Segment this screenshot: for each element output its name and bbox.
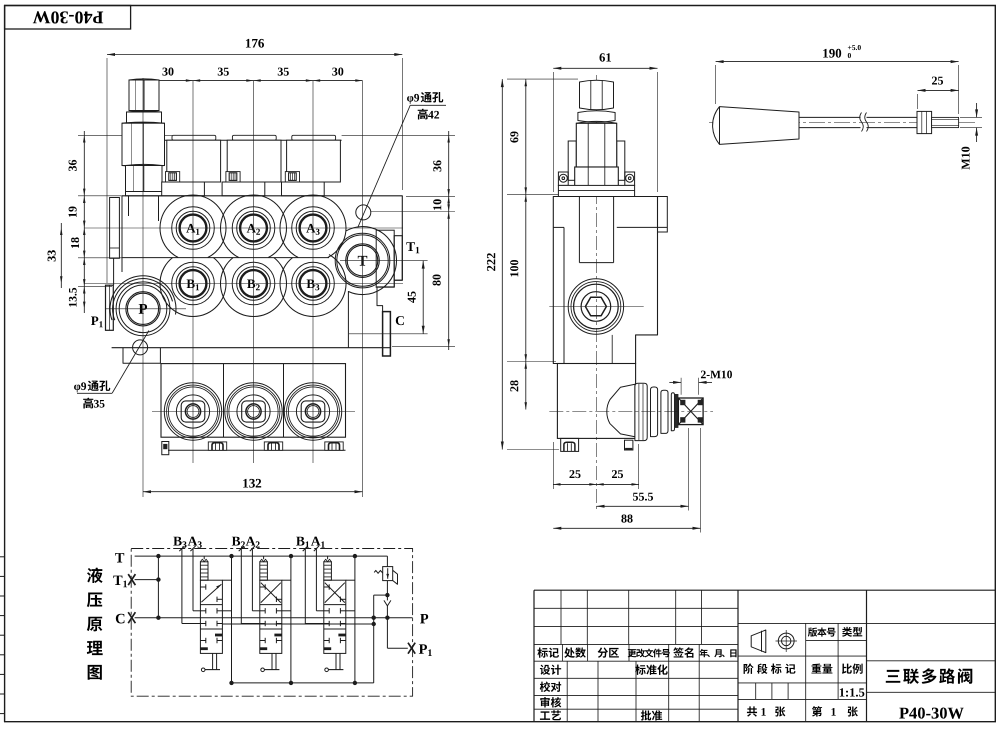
lower block section divider 1 — [223, 364, 225, 438]
foot bolt — [264, 442, 282, 450]
dimension 132 — [143, 491, 363, 493]
label P schematic — [420, 614, 428, 623]
cap bolt detail — [285, 172, 299, 182]
wire tank riser — [231, 556, 233, 683]
side hex body — [576, 123, 616, 167]
dimension M10 — [960, 116, 982, 118]
wire carryover line — [222, 623, 373, 625]
mounting hole phi9 top — [356, 205, 371, 220]
drawing frame border — [4, 5, 996, 7]
port T1 boss — [376, 230, 394, 287]
cap bolt detail — [226, 172, 240, 182]
spool cap assembly — [172, 135, 216, 140]
relief valve hex stack — [129, 80, 159, 111]
centerline bottom plugs row — [152, 411, 355, 413]
dimension 176 extension lines — [106, 58, 108, 283]
handle rod — [799, 116, 861, 118]
wire A feed — [192, 549, 194, 611]
front view centerline spool 3 — [312, 81, 314, 463]
valve body top edge — [122, 195, 403, 197]
plug X at T1 — [128, 574, 135, 585]
port A1 — [172, 207, 215, 250]
dimension 190 extension lines — [715, 65, 717, 104]
dimension 25-25 extension lines — [552, 442, 554, 489]
joystick bellows ridges — [635, 383, 647, 440]
wire A feed — [315, 549, 317, 611]
dimension 55.5 extension line — [688, 428, 690, 511]
wire B feed — [181, 549, 183, 624]
dimension 222 line — [501, 79, 503, 449]
dimension 55.5 — [597, 505, 689, 507]
dimension 61 — [553, 67, 657, 69]
labels B2 A2 — [232, 537, 240, 546]
side dim extension lines — [507, 78, 578, 80]
handle threaded end M10 — [932, 117, 959, 127]
dimension 80 — [433, 274, 441, 285]
wire C-P rail — [135, 617, 413, 619]
boss arc around P outer — [110, 276, 176, 320]
bottom plug assembly — [164, 383, 221, 440]
side hex socket — [585, 297, 606, 315]
header row texts — [537, 647, 547, 657]
dimension 33 line — [60, 223, 62, 288]
front view centerline spool 1 — [192, 81, 194, 463]
stage mark label — [744, 663, 754, 673]
left table columns header row — [561, 644, 563, 661]
foot bolt — [208, 442, 226, 450]
centerline P port — [106, 308, 186, 310]
dimension 19 — [69, 206, 77, 217]
version type headers — [808, 627, 817, 636]
side spool bore — [578, 197, 580, 263]
projection symbol trapezoid — [751, 630, 766, 653]
wire T rail — [135, 555, 388, 557]
label T schematic — [115, 553, 124, 562]
side left notch — [553, 226, 564, 228]
wire T1 to C vertical — [157, 556, 159, 618]
port A2 — [232, 207, 275, 250]
horizontal body line under caps — [160, 139, 342, 141]
label P1 schematic — [419, 644, 427, 653]
mounting hole phi9 bottom — [133, 340, 148, 355]
cap base block — [282, 182, 325, 196]
dimension 25-25 — [553, 483, 638, 485]
relief valve bore lines in body — [128, 196, 130, 216]
schematic title ye-ya-yuan-li-tu — [87, 567, 103, 583]
port B1 — [172, 262, 215, 305]
front view centerline T column — [362, 81, 364, 497]
side circle centerline — [549, 306, 643, 308]
sheet count — [747, 706, 757, 716]
left table row lines — [534, 607, 738, 609]
centerline T port — [340, 260, 428, 262]
left table columns lower rows — [566, 661, 568, 722]
dimension 36 left — [69, 160, 77, 171]
note phi9 through-hole height 35 — [74, 385, 80, 393]
scale value — [840, 688, 845, 696]
side bracket plates — [568, 141, 576, 180]
weight scale labels — [811, 664, 821, 674]
lower valve block — [161, 364, 346, 438]
port A3 — [292, 207, 335, 250]
body right lower profile steps — [377, 280, 402, 311]
boss circle arc around B port — [221, 258, 287, 317]
handle grip — [713, 107, 799, 145]
boss circle arc around A port — [160, 195, 226, 257]
relief valve spring — [374, 570, 382, 573]
dimension 176 — [107, 54, 402, 56]
cap bolt detail — [166, 172, 180, 182]
lower block section divider 2 — [283, 364, 285, 438]
side step near C — [611, 335, 613, 364]
side view body outline — [553, 197, 657, 364]
boss circle arc around B port — [160, 258, 226, 317]
node dots — [156, 554, 160, 558]
cap base block — [162, 182, 205, 196]
foot line under lower block — [168, 449, 346, 451]
drawing title san-lian-duo-lu-fa — [886, 670, 901, 683]
dimension row 30-35-35-30 — [143, 80, 363, 82]
spool cap assembly — [292, 135, 336, 140]
directional valve section at x=334.8 — [324, 562, 332, 580]
wire B feed — [240, 549, 242, 624]
note phi9 through-hole height 42 — [407, 96, 413, 104]
side lower block — [557, 364, 635, 439]
left dimension chain extension lines — [78, 134, 172, 136]
side view dimension 61 extension lines — [552, 72, 554, 192]
foot bolt — [325, 442, 343, 450]
left table columns top rows — [560, 590, 562, 644]
wire B feed — [304, 549, 306, 624]
side flange plates — [558, 185, 634, 196]
centerline B-port row — [84, 283, 403, 285]
wire bottom tank rail — [232, 682, 374, 684]
dimension 88 extension line — [700, 428, 702, 533]
wire P1 branch — [386, 618, 388, 649]
relief valve symbol — [386, 556, 388, 567]
handle nut — [917, 111, 932, 133]
port T1 cover plate — [394, 236, 402, 281]
body left edge — [121, 196, 123, 272]
dimension 18 — [71, 237, 79, 248]
middle section lines — [738, 622, 995, 624]
dimension chain 69-100-28 line — [525, 79, 527, 409]
port tick marks — [239, 546, 244, 551]
body left upper tab — [110, 198, 120, 259]
side line right mid — [617, 226, 668, 228]
right title area lines — [867, 660, 996, 662]
wire tank riser — [290, 556, 292, 683]
dimension 10 — [433, 199, 441, 210]
label P1 front view — [91, 317, 98, 325]
body parting line — [122, 257, 329, 259]
directional valve section at x=270.8 — [260, 562, 268, 580]
boss circle arc around B port — [280, 255, 346, 317]
check arrow — [384, 600, 391, 606]
side left foot bolt — [561, 438, 579, 451]
joystick collar — [675, 394, 679, 428]
side wings with bolt holes — [558, 172, 568, 185]
front view centerline spool 2 — [253, 81, 255, 463]
dimension 25 handle — [918, 89, 959, 91]
side hex nut small — [578, 111, 615, 123]
leader line phi9 bottom — [112, 331, 149, 394]
port tick marks — [303, 546, 308, 551]
wire tank riser — [354, 556, 356, 683]
left mounting tab — [162, 442, 169, 455]
sheet label box P40-30W (rotated) — [5, 6, 131, 30]
bottom plug assembly — [225, 383, 282, 440]
plug X at C — [128, 612, 135, 623]
label T1 schematic — [113, 576, 122, 585]
left dimension chain line — [83, 131, 85, 313]
parts-list row ticks at left margin — [0, 556, 5, 558]
front view centerline P spool — [142, 78, 144, 497]
spool cap assembly — [232, 135, 276, 140]
wire A feed — [251, 549, 253, 611]
schematic boundary dash-dot box — [131, 549, 412, 697]
right dimension chain extension lines — [342, 134, 455, 136]
wire relief to P rail — [386, 581, 388, 618]
dimension 88 — [553, 527, 700, 529]
wire riser to relief — [373, 595, 375, 683]
P boss lower step — [123, 348, 160, 364]
directional valve section at x=211.4 — [200, 562, 208, 580]
boss circle arc around A port — [221, 195, 287, 257]
body right edge — [401, 196, 403, 280]
port tick marks — [179, 546, 184, 551]
label C schematic — [116, 614, 125, 624]
centerline A-port row — [84, 227, 403, 229]
body inner vertical right of B3 — [347, 291, 349, 348]
title block top edge — [534, 589, 995, 591]
dimension 45 line — [422, 261, 424, 334]
labels B3 A3 — [173, 537, 181, 546]
side hex adjuster top — [580, 80, 614, 110]
right dimension chain line — [448, 131, 450, 350]
side view spool centerline — [596, 75, 598, 510]
side circle boss — [568, 279, 623, 334]
plug X at P1 — [408, 643, 415, 654]
side right foot — [625, 440, 633, 450]
title block outer verticals — [533, 590, 535, 722]
label C front view — [396, 316, 404, 325]
wire T1 stub — [135, 579, 159, 581]
joystick bellows dome — [607, 384, 635, 437]
joystick centerline — [549, 411, 713, 413]
boss arc around P inner — [113, 279, 173, 321]
port P1 boss — [106, 285, 114, 330]
dimension 190 +5.0/0 — [716, 61, 959, 63]
projection symbol circle — [778, 633, 794, 649]
side hex big nut — [575, 167, 619, 188]
boss arc around T — [346, 227, 397, 295]
port B2 — [232, 262, 275, 305]
designer rows texts — [540, 665, 550, 675]
dimension 13.5 — [69, 288, 77, 307]
leader line phi9 top — [358, 105, 411, 227]
port T — [335, 233, 390, 288]
label T1 front view — [406, 242, 415, 251]
dimension 36 right — [433, 160, 441, 171]
boss circle arc around A port — [280, 195, 346, 257]
drawing number P40-30W — [899, 708, 908, 719]
port B3 — [292, 262, 335, 305]
port C boss plate — [383, 312, 391, 356]
side right tab — [658, 197, 668, 233]
bottom plug assembly — [284, 383, 341, 440]
dimension 25 extension line — [917, 94, 919, 109]
stage mark small cells — [755, 683, 757, 700]
cap base block — [222, 182, 265, 196]
labels B1 A1 — [296, 537, 304, 546]
dimension 2-M10 — [680, 378, 682, 395]
handle rod break symbol — [860, 113, 864, 132]
handle centerline — [709, 122, 976, 124]
port P — [116, 282, 170, 336]
body bottom edge — [112, 347, 390, 349]
joystick clevis with cross — [678, 398, 703, 425]
